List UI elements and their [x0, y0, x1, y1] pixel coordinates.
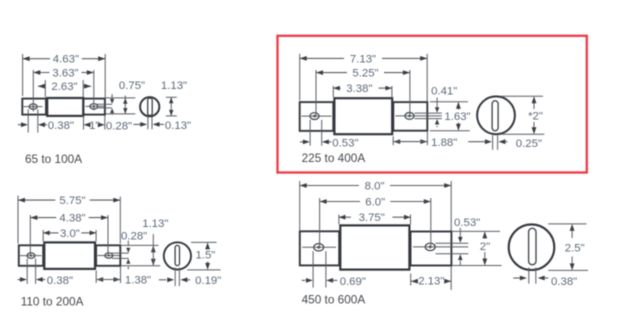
- fuse2 left terminal: [300, 102, 334, 131]
- dimension 1.88": [393, 132, 457, 149]
- svg-text:7.13": 7.13": [350, 53, 376, 65]
- fuse4 slot extension lines: [529, 268, 536, 284]
- svg-text:1.63": 1.63": [444, 111, 470, 123]
- svg-text:2.5": 2.5": [565, 243, 585, 255]
- fuse3 end view circle: [164, 242, 191, 269]
- dimension 1.63": [444, 102, 470, 131]
- svg-text:0.13": 0.13": [165, 120, 191, 132]
- svg-text:1": 1": [89, 120, 99, 132]
- dimension 2.5": [565, 224, 585, 271]
- fuse4 left center line: [302, 246, 336, 248]
- fuse3 end ticks: [187, 242, 220, 270]
- fuse4 body: [340, 225, 409, 269]
- dimension 0.53" fuse2: [300, 120, 359, 150]
- svg-text:3.38": 3.38": [346, 83, 372, 95]
- fuse1 left center line: [24, 106, 43, 108]
- svg-text:0.53": 0.53": [454, 217, 480, 229]
- dimension 3.0": [43, 228, 96, 242]
- svg-text:0.28": 0.28": [121, 231, 147, 243]
- fuse1 stud lines: [97, 104, 113, 108]
- dimension 2.13": [411, 267, 452, 291]
- fuse1 terminal ticks: [106, 98, 136, 114]
- dimension 3.63": [33, 67, 94, 111]
- dimension 0.13": [134, 120, 192, 132]
- fuse1 end view circle: [140, 97, 159, 116]
- fuse4 left hole: [314, 244, 324, 251]
- dimension 1": [84, 116, 105, 132]
- dimension 0.69": [302, 251, 366, 288]
- svg-text:0.41": 0.41": [431, 86, 457, 98]
- fuse4 right center line: [413, 246, 468, 248]
- dimension 0.28" stud: [106, 94, 132, 132]
- svg-text:1.88": 1.88": [431, 137, 457, 149]
- dimension 0.41" stud: [431, 86, 457, 128]
- svg-text:4.63": 4.63": [53, 54, 79, 66]
- svg-text:1.38": 1.38": [125, 274, 151, 286]
- svg-text:110 to 200A: 110 to 200A: [21, 295, 84, 309]
- dimension 3.75": [339, 212, 411, 224]
- fuse4 end view slot: [529, 228, 536, 265]
- svg-text:225 to 400A: 225 to 400A: [302, 151, 366, 165]
- svg-text:0.53": 0.53": [332, 137, 358, 149]
- fuse4 right terminal: [411, 232, 452, 266]
- fuse2 end ticks: [501, 96, 545, 134]
- fuse3 left hole: [27, 253, 35, 258]
- fuse3 left center line: [20, 255, 42, 257]
- svg-text:1.13": 1.13": [142, 218, 168, 230]
- fuse3 stud lines: [112, 253, 129, 258]
- fuse2 terminal ticks: [430, 102, 470, 131]
- fuse4 right hole: [425, 243, 435, 250]
- dimension 4.38": [30, 213, 108, 256]
- fuse2 right center line: [396, 115, 442, 117]
- fuse2 left center line: [302, 115, 332, 117]
- fuse1 right hole: [90, 104, 98, 109]
- svg-text:0.38": 0.38": [551, 276, 577, 288]
- fuse2 end view slot: [492, 101, 498, 131]
- svg-text:0.69": 0.69": [340, 276, 366, 288]
- fuse3 right hole: [105, 253, 113, 258]
- svg-text:3.63": 3.63": [52, 67, 78, 79]
- fuse1 slot extension lines: [148, 117, 152, 129]
- svg-text:5.25": 5.25": [352, 68, 378, 80]
- label 450 to 600A: [302, 293, 366, 307]
- fuse1 right center line: [86, 105, 105, 107]
- dimension 1.13": [161, 80, 187, 116]
- dimension 1.38": [96, 267, 151, 287]
- label 110 to 200A: [21, 295, 84, 309]
- dimension 0.25": [468, 138, 542, 150]
- dimension 0.38" fuse3: [18, 259, 74, 288]
- red highlight box: [278, 36, 587, 173]
- svg-text:2": 2": [480, 241, 490, 253]
- fuse3 body: [44, 242, 95, 269]
- dimension 2.63": [38, 80, 91, 97]
- fuse1 left hole: [29, 104, 37, 109]
- svg-text:0.28": 0.28": [106, 120, 132, 132]
- dimension 2": [480, 231, 490, 265]
- dimension 3.38": [333, 83, 392, 97]
- svg-text:0.19": 0.19": [195, 275, 221, 287]
- svg-text:5.75": 5.75": [59, 195, 85, 207]
- svg-text:4.38": 4.38": [59, 213, 85, 225]
- fuse3 right center line: [98, 255, 120, 257]
- svg-text:*2": *2": [528, 110, 543, 122]
- svg-text:2.63": 2.63": [51, 81, 77, 93]
- svg-text:1.13": 1.13": [161, 80, 187, 92]
- svg-text:1.5": 1.5": [195, 249, 215, 261]
- dimension 1.13" fuse3: [142, 218, 168, 266]
- fuse3 right terminal: [96, 245, 120, 265]
- fuse4 terminal ticks: [452, 231, 501, 265]
- svg-text:0.38": 0.38": [47, 275, 73, 287]
- dimension 1.5": [195, 242, 215, 270]
- dimension 8.0": [300, 181, 452, 231]
- label 225 to 400A: [302, 151, 366, 165]
- fuse4 end view circle: [509, 224, 555, 270]
- dimension 0.75": [119, 80, 145, 114]
- dimension 0.38" end: [513, 276, 577, 288]
- svg-text:450 to 600A: 450 to 600A: [302, 293, 366, 307]
- fuse2 left hole: [310, 113, 319, 120]
- svg-text:2.13": 2.13": [418, 276, 444, 288]
- svg-text:0.25": 0.25": [516, 138, 542, 150]
- dimension 0.28" fuse3: [121, 231, 147, 270]
- dimension 5.25": [316, 68, 410, 117]
- fuse2 right hole: [405, 113, 414, 120]
- svg-text:3.75": 3.75": [359, 212, 385, 224]
- fuse2 slot extension lines: [493, 136, 498, 150]
- dimension 7.13": [300, 53, 428, 101]
- dimension 0.38": [18, 109, 74, 132]
- fuse2 body: [334, 98, 392, 134]
- dimension 0.19": [159, 275, 222, 287]
- svg-text:0.75": 0.75": [119, 80, 145, 92]
- svg-text:6.0": 6.0": [365, 197, 385, 209]
- fuse1 end view slot: [148, 98, 153, 116]
- svg-text:8.0": 8.0": [365, 181, 385, 193]
- fuse3 left terminal: [19, 245, 43, 265]
- dimension 6.0": [320, 197, 431, 248]
- fuse4 end ticks: [548, 224, 588, 271]
- fuse1 body: [47, 98, 83, 116]
- fuse2 stud lines: [415, 113, 442, 119]
- svg-text:3.0": 3.0": [60, 228, 80, 240]
- fuse3 slot extension lines: [175, 268, 179, 287]
- svg-text:0.38": 0.38": [48, 120, 74, 132]
- dimension *2": [528, 96, 543, 134]
- fuse3 terminal ticks: [121, 245, 160, 265]
- dimension 5.75": [18, 195, 120, 243]
- fuse4 stud lines: [436, 243, 469, 253]
- dimension 0.53" stud: [454, 217, 480, 265]
- fuse2 end view circle: [477, 96, 515, 134]
- svg-text:65 to 100A: 65 to 100A: [25, 152, 82, 166]
- fuse1 left terminal: [22, 99, 46, 115]
- fuse3 end view slot: [175, 245, 179, 265]
- label 65 to 100A: [25, 152, 82, 166]
- fuse1 right terminal: [83, 99, 105, 115]
- dimension 4.63": [23, 54, 106, 98]
- fuse2 right terminal: [393, 102, 427, 131]
- fuse4 left terminal: [300, 231, 339, 265]
